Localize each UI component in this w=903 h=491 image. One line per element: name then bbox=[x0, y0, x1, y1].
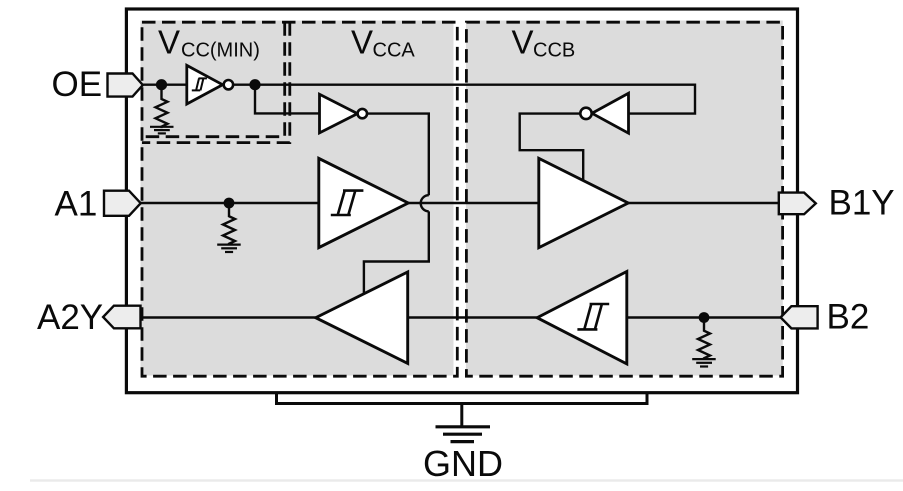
svg-text:V: V bbox=[512, 23, 534, 60]
wire U2 output right to vertical enable rail bbox=[367, 114, 429, 196]
op-amp U5 Schmitt buffer (A1) bbox=[319, 158, 408, 247]
wire U5 output to U4 input bbox=[408, 202, 539, 204]
svg-text:V: V bbox=[351, 23, 373, 60]
op-amp U3 inverter (VCCB enable, points left) bbox=[580, 93, 628, 133]
junction dot A1 pulldown node bbox=[224, 198, 235, 209]
VCCA supply region fill bbox=[141, 21, 454, 376]
wire enable rail down to A2Y buffer enable bbox=[364, 211, 429, 294]
wire U3 output left then down to U4 enable bbox=[520, 114, 584, 180]
VCCA region dashed border bbox=[142, 22, 457, 376]
wire node OE_INT down to U2 input bbox=[255, 85, 320, 114]
ground (A1 pulldown) bbox=[217, 245, 241, 252]
wire U1 output to VCCB, turn down to U3 input bbox=[232, 85, 695, 114]
wire U4 output to B1Y pin bbox=[628, 202, 779, 204]
svg-text:B2: B2 bbox=[827, 298, 870, 337]
wire GND stub bbox=[460, 404, 463, 426]
wire U7 output to A2Y pin bbox=[140, 316, 316, 318]
ground (OE pulldown) bbox=[150, 127, 174, 134]
svg-text:V: V bbox=[158, 23, 180, 60]
junction dot B2 pulldown node bbox=[699, 312, 710, 323]
junction dot OE_INT node bbox=[249, 79, 260, 90]
pin A2Y bbox=[103, 306, 140, 329]
op-amp U6 Schmitt buffer (B2, points left) bbox=[537, 272, 627, 364]
svg-text:CCB: CCB bbox=[533, 40, 575, 62]
pin OE bbox=[108, 74, 143, 97]
VCCA wrap line around VCC(MIN) bbox=[142, 22, 290, 142]
wire hop over A1 line bbox=[421, 195, 429, 211]
op-amp U1 Schmitt inverter (OE, VCC(MIN)) bbox=[187, 65, 233, 104]
svg-text:A1: A1 bbox=[55, 185, 98, 224]
resistor R2 (A1 pulldown) bbox=[223, 208, 235, 245]
pin A1 bbox=[104, 191, 141, 216]
svg-text:B1Y: B1Y bbox=[829, 184, 895, 223]
svg-text:GND: GND bbox=[423, 443, 503, 484]
op-amp U4 output buffer (B1Y) bbox=[539, 158, 628, 247]
wire U6 output to U7 input bbox=[408, 316, 537, 318]
ground GND symbol bbox=[436, 427, 491, 442]
svg-text:A2Y: A2Y bbox=[37, 298, 103, 337]
outer IC boundary box bbox=[126, 9, 797, 393]
wire B2 pin to U6 input bbox=[628, 316, 782, 318]
pin B1Y bbox=[779, 193, 816, 215]
op-amp U7 output buffer (A2Y, points left) bbox=[316, 272, 408, 363]
junction dot OE pulldown node bbox=[156, 79, 167, 90]
svg-text:CCA: CCA bbox=[373, 40, 416, 62]
op-amp U2 inverter (VCCA enable) bbox=[320, 94, 367, 133]
wire A1 pin to U5 input bbox=[141, 202, 320, 204]
svg-text:OE: OE bbox=[52, 65, 103, 104]
ground (B2 pulldown) bbox=[692, 359, 716, 366]
resistor R1 (OE pulldown) bbox=[156, 90, 168, 128]
faint footer rule bbox=[30, 479, 903, 481]
wire OE pin to U1 input bbox=[143, 83, 187, 85]
VCCB supply region fill bbox=[466, 21, 783, 376]
svg-text:CC(MIN): CC(MIN) bbox=[181, 40, 260, 62]
VCC(MIN) dashed box (right+bottom edges) bbox=[142, 22, 285, 137]
pin B2 bbox=[781, 306, 818, 328]
resistor R3 (B2 pulldown) bbox=[698, 323, 710, 360]
GND bus bbox=[277, 393, 648, 404]
VCCB region dashed border bbox=[466, 22, 782, 376]
